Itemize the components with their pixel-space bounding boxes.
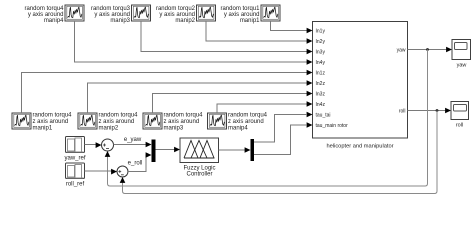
wire: fuzzy controller to demux [219,149,247,151]
port arrowheads into subsystem [307,28,313,128]
wire: manip2 z-noise to In2z [88,83,308,113]
svg-text:roll: roll [456,123,463,129]
block: yaw_ref [66,137,85,153]
wire: manip1 z-noise to In1z [22,73,308,114]
arrow into mux input 2 [146,152,152,158]
port arrow In4z [307,101,313,107]
svg-text:In2y: In2y [316,39,326,45]
wire: yaw_ref to sum1 [85,144,98,146]
svg-text:random torqu4z axis aroundmani: random torqu4z axis aroundmanip4 [228,113,268,132]
block: noise source 6 (manip2, z-axis) [78,113,97,129]
svg-text:tau_main rotor: tau_main rotor [316,123,349,129]
svg-text:In4z: In4z [316,102,326,108]
block: noise source 4 (manip1, y-axis) [261,5,280,21]
mux [152,140,156,163]
block: noise source 5 (manip1, z-axis) [12,113,31,129]
port arrow In3z [307,91,313,97]
wire: yaw feedback to sum1 [108,50,428,187]
arrow into sum2 bottom [120,177,126,183]
wire: roll_ref to sum2 [85,170,113,172]
svg-text:tau_tai: tau_tai [316,112,331,118]
sum junction 2 (roll error) [117,166,128,177]
svg-text:random torqu4z axis aroundmani: random torqu4z axis aroundmanip1 [33,113,73,132]
port arrow tau_tai [307,112,313,118]
svg-text:random torqu3y axis aroundmani: random torqu3y axis aroundmanip3 [91,6,131,24]
arrow into demux [245,147,251,153]
block: helicopter and manipulator [313,22,408,139]
block: roll_ref [66,163,85,179]
port arrow In2z [307,80,313,86]
arrow into mux input 1 [146,142,152,148]
block: noise source 3 (manip2, y-axis) [197,5,216,21]
arrow into yaw scope [446,47,452,53]
port arrow In4y [307,59,313,65]
port arrow In2y [307,38,313,44]
svg-text:e_roll: e_roll [128,161,143,167]
wire: mux to fuzzy controller [156,149,176,151]
port arrow In1y [307,28,313,34]
arrow into sum1 left [96,142,102,148]
scope: yaw [452,40,471,60]
svg-text:yaw: yaw [397,48,406,54]
wire: sum1 output e_yaw to mux [114,144,148,146]
wire: roll output to scope [408,110,451,112]
wire: demux out2 to tau_main rotor [254,125,307,155]
port labels [316,28,406,129]
scope: roll [451,102,469,120]
block: noise source 2 (manip3, y-axis) [132,5,151,21]
block: noise source 1 (manip4, y-axis) [65,5,84,21]
svg-text:In1y: In1y [316,28,326,34]
svg-text:random torqu4y axis aroundmani: random torqu4y axis aroundmanip4 [24,6,64,24]
svg-text:roll: roll [399,109,406,115]
svg-text:In3y: In3y [316,49,326,55]
port arrow tau_main rotor [307,122,313,128]
svg-text:yaw: yaw [457,63,467,69]
sum junction 1 (yaw error) [102,139,114,151]
svg-text:helicopter and manipulator: helicopter and manipulator [326,144,393,150]
svg-text:In2z: In2z [316,81,326,87]
svg-text:Fuzzy LogicController: Fuzzy LogicController [183,166,215,178]
wire: manip4 z-noise to In4z [217,104,307,113]
arrow into sum1 bottom [105,151,111,157]
svg-text:random torqu1y axis aroundmani: random torqu1y axis aroundmanip1 [220,6,260,24]
block: Fuzzy Logic Controller [180,138,219,163]
wire: manip1 y-noise to In1y [271,21,308,31]
svg-text:random torqu4z axis aroundmani: random torqu4z axis aroundmanip3 [164,113,204,132]
port arrow In3y [307,49,313,55]
svg-text:yaw_ref: yaw_ref [64,156,85,162]
arrow into fuzzy controller [174,147,180,153]
block: noise source 7 (manip3, z-axis) [143,113,162,129]
wire: manip3 y-noise to In3y [141,21,307,52]
wire: manip3 z-noise to In3z [153,94,308,114]
junction: roll branch [436,109,439,112]
svg-text:e_yaw: e_yaw [124,137,142,143]
wire: manip4 y-noise to In4y [75,21,308,62]
wire: yaw output to scope [408,49,452,51]
wire: roll feedback to sum2 [123,111,438,194]
svg-text:random torqu2y axis aroundmani: random torqu2y axis aroundmanip2 [156,6,196,24]
svg-text:random torqu4z axis aroundmani: random torqu4z axis aroundmanip2 [99,113,139,132]
arrow into sum2 left [111,169,117,175]
svg-text:roll_ref: roll_ref [66,182,85,188]
wire: demux out1 to tau_tai [254,115,307,143]
junction: yaw branch [426,48,429,51]
wire: manip2 y-noise to In2y [206,21,307,41]
block: noise source 8 (manip4, z-axis) [208,113,227,129]
svg-text:In3z: In3z [316,91,326,97]
port arrow In1z [307,70,313,76]
svg-text:In4y: In4y [316,60,326,66]
arrow into roll scope [445,108,451,114]
demux [251,139,255,161]
svg-text:In1z: In1z [316,70,326,76]
wire: sum2 output e_roll to mux [128,155,147,172]
